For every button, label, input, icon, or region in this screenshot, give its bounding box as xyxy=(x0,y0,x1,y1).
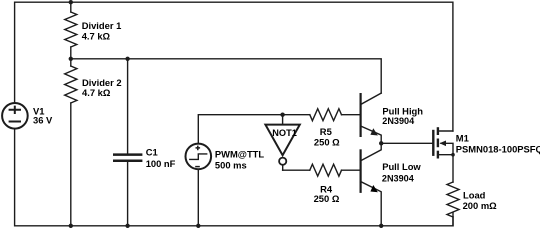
svg-text:4.7 kΩ: 4.7 kΩ xyxy=(82,31,111,42)
svg-text:PSMN018-100PSFQ: PSMN018-100PSFQ xyxy=(456,144,540,155)
svg-text:R5: R5 xyxy=(320,126,332,137)
svg-text:PWM@TTL: PWM@TTL xyxy=(215,148,265,159)
svg-text:100 nF: 100 nF xyxy=(146,158,176,169)
svg-text:250 Ω: 250 Ω xyxy=(314,193,340,204)
svg-text:250 Ω: 250 Ω xyxy=(314,137,340,148)
svg-text:NOT1: NOT1 xyxy=(272,128,297,138)
svg-text:4.7 kΩ: 4.7 kΩ xyxy=(82,87,111,98)
svg-text:2N3904: 2N3904 xyxy=(382,116,415,126)
svg-text:200 mΩ: 200 mΩ xyxy=(463,200,498,211)
svg-text:Pull Low: Pull Low xyxy=(382,161,421,172)
svg-text:M1: M1 xyxy=(456,132,469,143)
svg-text:2N3904: 2N3904 xyxy=(382,173,415,183)
svg-text:Pull High: Pull High xyxy=(382,106,423,117)
svg-text:36 V: 36 V xyxy=(33,115,53,126)
svg-text:Divider 1: Divider 1 xyxy=(82,20,122,31)
svg-text:500 ms: 500 ms xyxy=(215,159,247,170)
svg-text:C1: C1 xyxy=(146,147,158,158)
